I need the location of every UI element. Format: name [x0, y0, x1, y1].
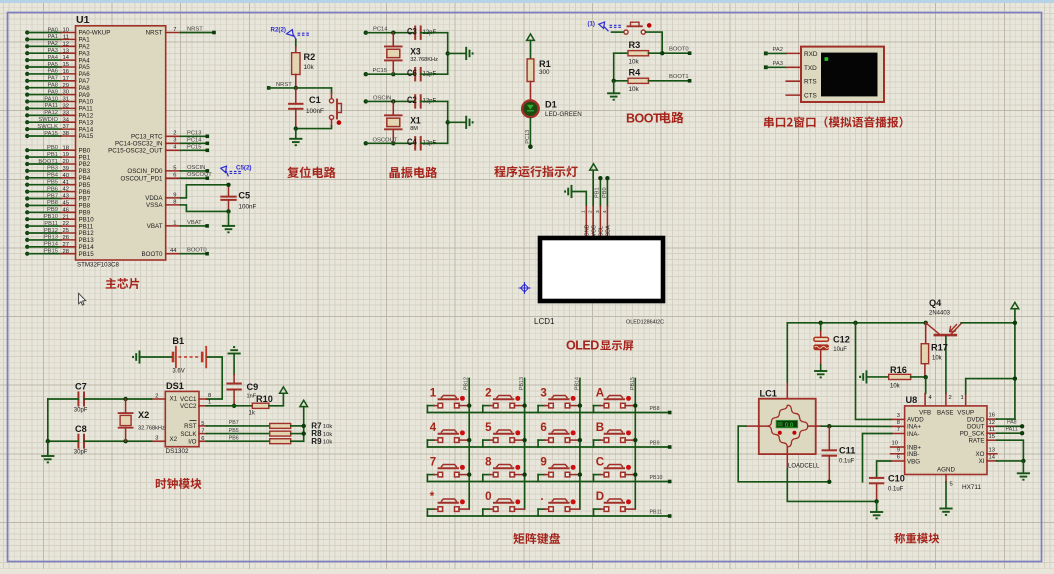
- U8 pin 12 DOUT wire to PA8: [987, 425, 997, 427]
- push button key 0: [483, 491, 524, 516]
- capacitor C5 100nF: [228, 185, 230, 197]
- wire net PB9 to U1 pin 46: [25, 210, 29, 214]
- wire keypad column PB14: [579, 379, 581, 510]
- wire PA2 to RXD: [766, 52, 786, 54]
- svg-text:5: 5: [950, 482, 953, 488]
- capacitor C10 0.1uF: [870, 477, 883, 479]
- U1 pin VSSA (8) wire to C5 bottom node: [166, 204, 181, 206]
- svg-text:TXD: TXD: [804, 65, 817, 72]
- svg-text:D: D: [596, 491, 604, 503]
- svg-text:PB9: PB9: [650, 441, 660, 447]
- resistor R4 10k: [614, 80, 628, 82]
- svg-text:32.768kHz: 32.768kHz: [138, 426, 165, 432]
- U8 pin 13 XO stub: [987, 453, 997, 455]
- svg-text:5: 5: [173, 165, 176, 171]
- DS1 pin 5 RST wire net PB7: [199, 425, 207, 427]
- svg-text:37: 37: [63, 124, 69, 130]
- svg-text:SWDIO: SWDIO: [38, 117, 58, 123]
- wire keypad column PB12: [468, 379, 470, 510]
- svg-text:39: 39: [63, 166, 69, 172]
- LCD1 pin stubs: [585, 206, 587, 238]
- wire R7 R8 R9 right vertical: [291, 425, 304, 427]
- resistor R9 10k: [270, 439, 291, 444]
- node NRST junction: [294, 86, 298, 90]
- svg-text:11: 11: [63, 35, 69, 41]
- svg-text:32: 32: [63, 104, 69, 110]
- svg-text:4: 4: [430, 422, 437, 434]
- svg-text:PB8: PB8: [47, 200, 58, 206]
- svg-text:BOOT0: BOOT0: [142, 251, 164, 258]
- svg-text:PB1: PB1: [595, 187, 601, 198]
- wire OSCIN row: [366, 100, 415, 102]
- svg-text:AVDD: AVDD: [907, 417, 924, 424]
- svg-text:PB7: PB7: [47, 193, 58, 199]
- svg-text:PA15: PA15: [44, 131, 58, 137]
- svg-text:PB15: PB15: [630, 377, 636, 390]
- loadcell bottom vertex wire: [786, 447, 788, 469]
- wire net PA2 to U1 pin 12: [25, 44, 29, 48]
- node R4 left junction: [612, 79, 616, 83]
- svg-text:6: 6: [897, 455, 900, 461]
- net terminal OSCIN: [364, 99, 368, 103]
- svg-text:PC14: PC14: [373, 27, 388, 33]
- node XI junction: [1021, 459, 1025, 463]
- svg-text:40: 40: [63, 173, 69, 179]
- svg-text:15: 15: [989, 434, 995, 440]
- svg-text:PC13: PC13: [187, 130, 202, 136]
- svg-text:C6: C6: [407, 68, 417, 79]
- svg-text:OSCOUT: OSCOUT: [373, 137, 398, 143]
- DS1 pin 2 X1: [152, 398, 166, 400]
- label 矩阵键盘: [513, 533, 560, 544]
- svg-text:10: 10: [63, 28, 69, 34]
- svg-text:33: 33: [63, 110, 69, 116]
- svg-text:PB11: PB11: [650, 510, 663, 516]
- svg-text:C1: C1: [309, 95, 321, 105]
- DS1 pin 3 X2: [152, 440, 166, 442]
- wire PA3 to TXD: [766, 66, 786, 68]
- node R7 junction: [302, 424, 306, 428]
- side ground left of OLED GND pin: [565, 185, 571, 198]
- svg-text:C3: C3: [407, 26, 417, 37]
- node C1-button junction: [294, 126, 298, 130]
- svg-text:SCLK: SCLK: [180, 431, 197, 438]
- svg-text:PB6: PB6: [229, 436, 239, 442]
- svg-text:B1: B1: [172, 336, 184, 346]
- wire R4 to BOOT1 terminal: [649, 80, 690, 82]
- svg-text:VDDA: VDDA: [145, 195, 163, 202]
- DS1 pin 8 VCC1: [199, 398, 207, 400]
- resistor R3 10k: [614, 52, 628, 54]
- svg-text:PA3: PA3: [773, 61, 784, 67]
- svg-text:PB5: PB5: [229, 428, 239, 434]
- net terminal PB8: [668, 411, 672, 415]
- svg-text:10k: 10k: [629, 59, 640, 66]
- svg-text:2: 2: [949, 395, 952, 401]
- svg-text:OSCOUT_PD1: OSCOUT_PD1: [121, 175, 164, 182]
- wire net BOOT1 to U1 pin 20: [25, 162, 29, 166]
- svg-text:PB10: PB10: [44, 214, 58, 220]
- svg-text:PB7: PB7: [229, 420, 239, 426]
- svg-text:11: 11: [989, 427, 995, 433]
- svg-text:25: 25: [63, 228, 69, 234]
- svg-text:PA9: PA9: [47, 89, 58, 95]
- node collector-rail junction: [1013, 321, 1017, 325]
- svg-text:HX711: HX711: [962, 484, 982, 491]
- svg-text:Q4: Q4: [929, 298, 942, 308]
- wire net PA15 to U1 pin 38: [25, 134, 29, 138]
- wire net PA0 to U1 pin 10: [25, 30, 29, 34]
- svg-text:41: 41: [63, 180, 69, 186]
- wire net PB13 to U1 pin 26: [25, 238, 29, 242]
- side ground left of battery: [140, 356, 172, 358]
- wire bus to side ground: [446, 51, 450, 55]
- svg-text:PB12: PB12: [464, 377, 470, 390]
- svg-text:2: 2: [155, 394, 158, 400]
- svg-text:3: 3: [595, 210, 601, 213]
- push button key B: [594, 422, 638, 447]
- chip U8 HX711 body: [905, 406, 987, 475]
- power arrow above R7-R9: [300, 400, 308, 406]
- svg-text:0.1uF: 0.1uF: [888, 487, 904, 493]
- wire keypad column PB13: [524, 379, 526, 510]
- node C8 junction: [46, 439, 50, 443]
- cursor hint C5(2) blue: [221, 166, 229, 176]
- svg-text:10k: 10k: [323, 440, 332, 446]
- svg-text:U1: U1: [76, 14, 90, 26]
- resistor R8 10k: [270, 431, 291, 436]
- svg-text:BOOT: BOOT: [626, 111, 661, 125]
- svg-text:22: 22: [63, 221, 69, 227]
- svg-text:8: 8: [208, 393, 211, 399]
- wire net PA11 to U1 pin 32: [25, 106, 29, 110]
- svg-text:BOOT0: BOOT0: [187, 248, 207, 254]
- svg-text:PB1: PB1: [47, 152, 58, 158]
- svg-text:PC13_RTC: PC13_RTC: [131, 134, 163, 141]
- power arrow above R1: [527, 34, 535, 40]
- ground below C12: [820, 350, 822, 365]
- svg-text:10uF: 10uF: [833, 347, 847, 353]
- svg-text:LC1: LC1: [760, 389, 777, 399]
- serial terminal box: [801, 47, 884, 102]
- wire net PB0 to U1 pin 18: [25, 148, 29, 152]
- svg-text:PB8: PB8: [650, 406, 660, 412]
- svg-text:6: 6: [173, 173, 176, 179]
- svg-text:2N4403: 2N4403: [929, 311, 951, 317]
- svg-text:SWCLK: SWCLK: [37, 124, 58, 130]
- svg-text:12: 12: [63, 41, 69, 47]
- push button key C: [594, 457, 638, 482]
- U1 inner labels right side: [108, 30, 163, 258]
- svg-text:X1: X1: [170, 395, 178, 402]
- node VDDA-C5 junction: [226, 183, 230, 187]
- node R8 junction: [302, 431, 306, 435]
- svg-text:5: 5: [201, 421, 204, 427]
- svg-text:I/O: I/O: [188, 439, 196, 446]
- push button BOOT: [612, 31, 624, 33]
- svg-text:0.1uF: 0.1uF: [839, 459, 855, 465]
- wire R2 to NRST node: [295, 75, 297, 88]
- svg-text:PA10: PA10: [44, 96, 58, 102]
- svg-text:C2: C2: [407, 95, 417, 106]
- wire to reset button top: [331, 88, 333, 93]
- wire left vertical C7-C8: [47, 399, 49, 441]
- wire C7 row: [48, 398, 79, 400]
- svg-text:OLED12864I2C: OLED12864I2C: [626, 320, 664, 326]
- wire keypad column PB15: [634, 379, 636, 510]
- svg-text:3: 3: [173, 138, 176, 144]
- svg-text:C11: C11: [839, 446, 855, 456]
- DS1 pin 6 I/O wire net PB6: [199, 440, 207, 442]
- net terminal PA2: [764, 52, 768, 56]
- svg-text:5: 5: [485, 422, 492, 434]
- push button key D: [594, 491, 635, 516]
- svg-text:PA3: PA3: [47, 48, 58, 54]
- DS1 pin 7 SCLK wire net PB5: [199, 433, 207, 435]
- resistor R10 1k: [252, 403, 269, 408]
- net terminal PC15: [364, 72, 368, 76]
- svg-text:C7: C7: [75, 382, 87, 392]
- wire net PB11 to U1 pin 22: [25, 224, 29, 228]
- svg-text:18: 18: [63, 145, 69, 151]
- svg-text:CTS: CTS: [804, 93, 817, 100]
- svg-text:BASE: BASE: [937, 410, 954, 417]
- wire net PA6 to U1 pin 16: [25, 72, 29, 76]
- ground below C7/C8: [47, 441, 49, 456]
- svg-text:6: 6: [201, 436, 204, 442]
- svg-text:PB15: PB15: [44, 249, 58, 255]
- node BOOT0 junction: [660, 51, 664, 55]
- wire net PB6 to U1 pin 42: [25, 190, 29, 194]
- wire AVDD branch: [853, 321, 857, 325]
- svg-text:VSUP: VSUP: [957, 410, 974, 417]
- svg-text:44: 44: [170, 248, 177, 254]
- svg-text:3.6V: 3.6V: [172, 368, 184, 374]
- U8 pin 14 XI wire: [987, 460, 997, 462]
- side ground left of R16: [860, 370, 866, 383]
- wire crystal bus vertical: [447, 33, 449, 74]
- resistor R1 300: [527, 59, 534, 82]
- wire R3 to BOOT0 terminal: [649, 52, 690, 54]
- net terminal PB0: [605, 176, 609, 180]
- svg-text:B: B: [596, 422, 604, 434]
- svg-text:A: A: [596, 388, 604, 400]
- svg-text:PC15: PC15: [373, 68, 388, 74]
- svg-text:34: 34: [63, 117, 70, 123]
- wire SDA to PB0: [606, 178, 608, 206]
- wire net PA4 to U1 pin 14: [25, 58, 29, 62]
- node C10 bottom junction: [874, 499, 878, 503]
- inverted ground above C9: [228, 347, 241, 353]
- svg-text:PC15: PC15: [187, 144, 202, 150]
- svg-text:PA8: PA8: [1007, 420, 1017, 426]
- node VSSA-C5 junction: [226, 209, 230, 213]
- svg-text:PB14: PB14: [44, 242, 59, 248]
- svg-text:PB4: PB4: [47, 173, 59, 179]
- svg-text:LCD1: LCD1: [534, 317, 555, 326]
- display LCD1 OLED12864I2C body: [540, 238, 663, 301]
- svg-text:1: 1: [581, 210, 587, 213]
- wire GND pin: [572, 192, 587, 207]
- svg-text:7: 7: [173, 27, 176, 33]
- svg-text:10k: 10k: [323, 432, 332, 438]
- svg-text:10k: 10k: [932, 356, 943, 362]
- svg-text:R3: R3: [629, 40, 641, 50]
- svg-text:OSCIN_PD0: OSCIN_PD0: [127, 168, 163, 175]
- push button key 2: [483, 388, 527, 413]
- svg-text:2: 2: [173, 131, 176, 137]
- ground below C1: [295, 129, 297, 139]
- svg-text:VFB: VFB: [919, 410, 931, 417]
- push button key 4: [427, 422, 471, 447]
- loadcell left vertex wire to INA- bus: [746, 425, 768, 427]
- wire net PB7 to U1 pin 43: [25, 196, 29, 200]
- svg-text:PB6: PB6: [47, 186, 58, 192]
- node VSUP junction: [1013, 376, 1017, 380]
- side ground of crystal bus: [466, 116, 472, 129]
- wire net PB8 to U1 pin 45: [25, 203, 29, 207]
- red actuator dot of BOOT button: [647, 23, 652, 28]
- net terminal BOOT0: [688, 51, 692, 55]
- U1 pin BOOT0 (44): [166, 253, 181, 255]
- push button key 6: [538, 422, 582, 447]
- U1 pin VBAT (1): [166, 225, 181, 227]
- svg-text:38: 38: [63, 131, 69, 137]
- capacitor C7 30pF: [77, 393, 79, 406]
- svg-text:C8: C8: [75, 424, 87, 434]
- push button key 8: [483, 457, 527, 482]
- power arrow right of R10: [280, 387, 288, 393]
- svg-text:BOOT0: BOOT0: [669, 47, 689, 53]
- net terminal PB9: [668, 445, 672, 449]
- svg-text:R16: R16: [890, 365, 907, 375]
- svg-text:21: 21: [63, 214, 69, 220]
- wire net PA7 to U1 pin 17: [25, 79, 29, 83]
- wire net PB5 to U1 pin 41: [25, 183, 29, 187]
- net terminal PA3: [764, 65, 768, 69]
- wire net PB1 to U1 pin 19: [25, 155, 29, 159]
- svg-text:9: 9: [897, 447, 900, 453]
- svg-text:14: 14: [63, 55, 70, 61]
- power arrow above VCC pin: [590, 164, 598, 170]
- svg-text:NRST: NRST: [146, 30, 163, 37]
- net terminal PA8: [1020, 424, 1024, 428]
- U1 pin VDDA (9) wire to C5 top node: [166, 197, 181, 199]
- net terminal PB10: [668, 480, 672, 484]
- svg-text:46: 46: [63, 207, 69, 213]
- svg-text:7: 7: [201, 429, 204, 435]
- svg-text:7: 7: [430, 457, 436, 469]
- wire net SWCLK to U1 pin 37: [25, 127, 29, 131]
- svg-text:14: 14: [989, 455, 996, 461]
- wire net PA1 to U1 pin 11: [25, 37, 29, 41]
- svg-text:INA+: INA+: [907, 424, 921, 431]
- svg-text:6: 6: [540, 422, 546, 434]
- svg-text:15: 15: [63, 62, 69, 68]
- svg-text:VBAT: VBAT: [187, 220, 202, 226]
- svg-text:R10: R10: [256, 394, 273, 404]
- wire Q4 collector to power rail right: [961, 322, 1015, 324]
- svg-text:PA11: PA11: [1006, 427, 1018, 433]
- push button key 3: [538, 388, 582, 413]
- svg-text:PA15: PA15: [79, 133, 94, 140]
- svg-text:PB13: PB13: [44, 235, 58, 241]
- push button key 5: [483, 422, 527, 447]
- wire net PB12 to U1 pin 25: [25, 231, 29, 235]
- svg-text:PC14-OSC32_IN: PC14-OSC32_IN: [115, 141, 162, 148]
- label 时钟模块: [156, 478, 202, 489]
- svg-text:10: 10: [892, 441, 898, 447]
- svg-text:PC14: PC14: [187, 137, 202, 143]
- node INA+ C11 junction: [827, 424, 831, 428]
- capacitor C6 12pF: [414, 68, 416, 80]
- svg-text:R1: R1: [539, 59, 551, 69]
- push button key 7: [427, 457, 471, 482]
- svg-text:8: 8: [173, 199, 176, 205]
- wire left vertical R3-R4: [613, 53, 615, 81]
- chip U1 STM32F103C8 body: [76, 26, 166, 260]
- resistor R7 10k: [270, 423, 291, 428]
- svg-text:100nF: 100nF: [239, 203, 257, 210]
- svg-text:RTS: RTS: [804, 79, 817, 86]
- svg-text:C10: C10: [888, 474, 905, 484]
- svg-text:NRST: NRST: [187, 27, 203, 33]
- wire R1 to D1: [530, 82, 532, 101]
- svg-text:PA2: PA2: [773, 47, 784, 53]
- svg-text:0.0: 0.0: [785, 423, 794, 429]
- wire NRST row: [269, 87, 332, 89]
- U1 left pin names PA0-WKUP..PA15: [79, 30, 111, 258]
- DS1 pin 1 VCC2: [199, 405, 207, 407]
- svg-text:BOOT1: BOOT1: [38, 159, 58, 165]
- capacitor C1 100nF: [295, 88, 297, 104]
- svg-text:PA1: PA1: [47, 34, 58, 40]
- svg-text:OLED: OLED: [566, 339, 599, 353]
- push button key *: [427, 491, 468, 516]
- svg-text:VCC: VCC: [591, 225, 597, 236]
- svg-text:C5: C5: [238, 191, 250, 201]
- svg-text:R17: R17: [931, 343, 948, 353]
- svg-text:29: 29: [63, 83, 69, 89]
- svg-text:0: 0: [485, 491, 491, 503]
- svg-text:42: 42: [63, 187, 69, 193]
- svg-text:RXD: RXD: [804, 51, 818, 58]
- loadcell bridge resistors: [768, 405, 788, 426]
- label 主芯片: [106, 278, 140, 289]
- resistor R16 10k: [867, 376, 889, 378]
- resistor R2 10k: [292, 53, 300, 75]
- svg-text:27: 27: [63, 242, 69, 248]
- svg-text:INB-: INB-: [907, 451, 919, 458]
- net terminal PB1: [598, 176, 602, 180]
- wire VFB node to U8 VFB pin: [925, 377, 927, 393]
- wire C4 to bus: [421, 142, 448, 144]
- svg-text:R2: R2: [304, 52, 316, 62]
- chip DS1 DS1302 body: [165, 391, 199, 446]
- svg-text:16: 16: [63, 69, 69, 75]
- capacitor C8 30pF: [77, 435, 79, 448]
- node C11 bottom junction: [827, 480, 831, 484]
- svg-text:10k: 10k: [304, 64, 315, 71]
- wire C3 to bus: [421, 32, 448, 34]
- svg-text:32.768KHz: 32.768KHz: [410, 57, 438, 63]
- capacitor C11 0.1uF: [828, 426, 830, 450]
- svg-text:3: 3: [540, 388, 546, 400]
- svg-text:RATE: RATE: [968, 438, 984, 445]
- svg-text:X2: X2: [170, 436, 178, 443]
- svg-text:PB10: PB10: [650, 475, 663, 481]
- wire net PB3 to U1 pin 39: [25, 169, 29, 173]
